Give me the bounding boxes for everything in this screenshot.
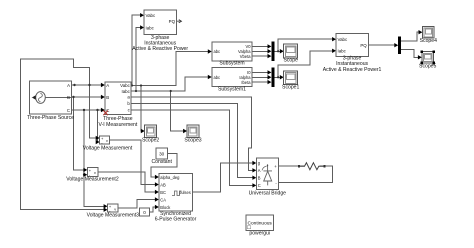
resistor terminal right bbox=[323, 165, 325, 167]
scope5 block (selected) bbox=[419, 50, 436, 69]
wire Voltage Measurement2 v to generator BC bbox=[98, 172, 157, 192]
wire rail A to Voltage Measurement plus bbox=[90, 85, 98, 138]
junction node Mux1 out branch bbox=[277, 50, 279, 52]
mux M1 bbox=[271, 42, 274, 62]
wire Demux to Scope4 bbox=[401, 32, 420, 41]
svg-text:v: v bbox=[106, 139, 108, 143]
svg-text:abc: abc bbox=[214, 49, 221, 54]
wire rail C to Voltage Measurement minus bbox=[97, 110, 99, 142]
junction node Vabc power branch bbox=[131, 84, 133, 86]
wire Demux to Scope5 bbox=[401, 50, 420, 58]
wire Subsystem1 I0 to Mux2 bbox=[252, 71, 269, 73]
resistor zigzag bbox=[299, 163, 325, 170]
svg-text:30: 30 bbox=[159, 152, 165, 157]
svg-text:B: B bbox=[106, 95, 109, 100]
wire rail C to Voltage Measurement2 minus and Voltage Measurement3 plus bbox=[84, 110, 105, 206]
wire Voltage Measurement v to generator AB bbox=[110, 140, 157, 185]
mux M2 bbox=[271, 68, 274, 88]
wire Constant 30 to generator alpha_deg bbox=[151, 154, 177, 178]
svg-text:PQ: PQ bbox=[169, 19, 176, 24]
power measurement block P1 bbox=[132, 10, 188, 52]
svg-text:6-Pulse Generator: 6-Pulse Generator bbox=[155, 217, 197, 223]
svg-text:Continuous: Continuous bbox=[248, 221, 273, 227]
svg-text:AB: AB bbox=[160, 182, 166, 187]
wire phase b to bridge B bbox=[131, 104, 254, 178]
wire Constant1 0 to generator Block bbox=[150, 207, 157, 212]
three-phase source U1 bbox=[27, 81, 74, 121]
wire Voltage Measurement3 v to generator CA bbox=[118, 200, 156, 209]
svg-text:Ibeta: Ibeta bbox=[241, 80, 251, 85]
arrowheads bbox=[101, 83, 105, 87]
wire Vabc branch down to Scope2 bbox=[141, 86, 142, 132]
svg-text:Subsystem: Subsystem bbox=[219, 60, 244, 66]
svg-text:C: C bbox=[67, 108, 70, 113]
svg-text:Scope5: Scope5 bbox=[419, 63, 436, 69]
svg-text:Vabc: Vabc bbox=[120, 83, 130, 88]
svg-text:Iabc: Iabc bbox=[338, 49, 347, 54]
svg-text:Scope2: Scope2 bbox=[142, 137, 159, 143]
svg-text:PQ: PQ bbox=[360, 43, 367, 48]
junction node phase C tap2 bbox=[96, 109, 98, 111]
svg-text:Vbeta: Vbeta bbox=[240, 54, 251, 59]
wire branch to Voltage Measurement2 minus bbox=[83, 174, 86, 176]
svg-text:Subsystem1: Subsystem1 bbox=[218, 86, 246, 92]
svg-text:CA: CA bbox=[160, 197, 166, 202]
junction node phase A taps bbox=[88, 84, 90, 86]
wire Subsystem V0 to Mux1 bbox=[252, 45, 269, 47]
svg-text:Scope1: Scope1 bbox=[282, 84, 299, 90]
scope block bbox=[283, 44, 298, 63]
wire Iabc net to Subsystem1 abc bbox=[131, 77, 209, 91]
svg-text:v: v bbox=[114, 207, 116, 211]
junction node Iabc Scope3 branch bbox=[170, 90, 172, 92]
svg-text:BC: BC bbox=[160, 190, 166, 195]
svg-text:V-I Measurement: V-I Measurement bbox=[99, 122, 138, 128]
subsystem block bbox=[212, 42, 252, 66]
svg-text:Active & Reactive Power: Active & Reactive Power bbox=[132, 46, 188, 52]
svg-text:0: 0 bbox=[143, 210, 146, 215]
wire Subsystem1 Ibeta to Mux2 bbox=[252, 81, 269, 83]
junction node VM2 minus branch bbox=[83, 174, 85, 176]
svg-text:Iabc: Iabc bbox=[121, 89, 130, 94]
svg-text:Voltage Measurement: Voltage Measurement bbox=[83, 145, 133, 151]
wire Subsystem Vbeta to Mux1 bbox=[252, 55, 269, 57]
wire phase a to bridge A bbox=[131, 97, 254, 170]
svg-text:Scope3: Scope3 bbox=[184, 137, 201, 143]
power measurement block P2 bbox=[323, 34, 382, 73]
svg-text:A: A bbox=[258, 168, 261, 173]
svg-text:Iabc: Iabc bbox=[146, 25, 155, 30]
svg-text:v: v bbox=[94, 171, 96, 175]
subsystem1 block bbox=[212, 68, 252, 93]
svg-text:Vabc: Vabc bbox=[146, 13, 156, 18]
svg-text:powergui: powergui bbox=[249, 230, 270, 236]
wire Mux2 branch to power block1 Iabc bbox=[278, 51, 333, 77]
junction node phase B tap bbox=[72, 96, 74, 98]
wire Iabc branch up to power block Iabc bbox=[136, 28, 142, 92]
synchronized 6-pulse generator block bbox=[155, 173, 197, 222]
junction node phase C tap1 bbox=[83, 109, 85, 111]
wire Subsystem Valpha to Mux1 bbox=[252, 50, 269, 52]
svg-text:Voltage Measurement3: Voltage Measurement3 bbox=[87, 213, 140, 219]
svg-text:Universal Bridge: Universal Bridge bbox=[249, 191, 287, 197]
svg-text:Three-Phase Source: Three-Phase Source bbox=[27, 115, 74, 121]
svg-text:B: B bbox=[258, 175, 261, 180]
svg-text:Block: Block bbox=[160, 205, 171, 210]
scope3 block bbox=[184, 125, 201, 143]
svg-text:A: A bbox=[67, 83, 70, 88]
voltage measurement3 block bbox=[87, 204, 140, 219]
svg-text:Vabc: Vabc bbox=[338, 37, 348, 42]
wire generator pulses to bridge g bbox=[192, 163, 254, 192]
scope2 block bbox=[142, 125, 159, 143]
svg-text:Scope4: Scope4 bbox=[420, 38, 437, 44]
wire Iabc branch down to Scope3 bbox=[171, 91, 185, 131]
wire Vabc branch up to power block Vabc bbox=[132, 15, 142, 85]
junction node Mux2 out branch bbox=[277, 76, 279, 78]
scope1 block bbox=[282, 71, 299, 90]
wire phase c to bridge C bbox=[131, 110, 254, 185]
universal bridge block bbox=[249, 158, 287, 197]
junction node phase A extra tap bbox=[73, 84, 75, 86]
svg-text:A: A bbox=[106, 83, 109, 88]
wire bridge plus through resistor back to bridge minus bbox=[278, 166, 332, 183]
wire left loop A phase to Voltage Measurement3 minus bbox=[20, 59, 105, 210]
svg-text:Scope: Scope bbox=[283, 58, 298, 64]
wire Mux1 branch to power block1 Vabc bbox=[278, 39, 333, 51]
wire rail B to Voltage Measurement2 plus bbox=[74, 97, 85, 170]
powergui block bbox=[246, 215, 274, 236]
wire Vabc net to Subsystem abc bbox=[131, 52, 209, 86]
constant1 block 0 bbox=[140, 208, 150, 216]
voltage measurement2 block bbox=[66, 168, 119, 183]
svg-text:Active & Reactive Power1: Active & Reactive Power1 bbox=[323, 67, 382, 73]
svg-text:alpha_deg: alpha_deg bbox=[160, 175, 180, 180]
wire source C to V-I C bbox=[72, 109, 103, 111]
junction node Vabc Scope2 branch bbox=[140, 84, 142, 86]
wire Mux1 to Scope bbox=[275, 50, 282, 52]
junction node Iabc power branch bbox=[135, 90, 137, 92]
resistor terminal left bbox=[298, 165, 300, 167]
voltage measurement block VM1 bbox=[83, 136, 133, 152]
scope4 block bbox=[420, 26, 437, 44]
constant block 30 bbox=[152, 148, 173, 165]
svg-text:Constant: Constant bbox=[152, 159, 173, 165]
wire Mux2 to Scope1 bbox=[275, 76, 282, 78]
svg-text:C: C bbox=[258, 183, 261, 188]
wire Subsystem1 Ialpha to Mux2 bbox=[252, 76, 269, 78]
wire source A to V-I A bbox=[72, 84, 103, 86]
demux D1 bbox=[398, 37, 401, 54]
svg-text:abc: abc bbox=[214, 75, 221, 80]
wire source B to V-I B bbox=[72, 96, 103, 98]
three-phase V-I measurement block bbox=[99, 82, 138, 128]
svg-text:Voltage Measurement2: Voltage Measurement2 bbox=[66, 177, 119, 183]
svg-text:B: B bbox=[67, 95, 70, 100]
wire power block1 PQ to Demux bbox=[368, 44, 395, 46]
